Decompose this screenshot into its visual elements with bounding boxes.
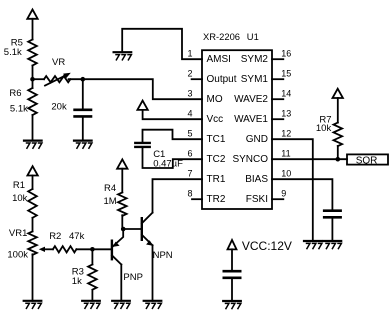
wire pin10 BIAS to cap bbox=[272, 179, 332, 209]
svg-text:SYM2: SYM2 bbox=[241, 54, 269, 65]
node E (R4/NPN base/PNP emitter) bbox=[121, 227, 126, 232]
label VR 20k bbox=[51, 57, 67, 112]
power symbol (R7 top) bbox=[333, 89, 343, 98]
pin 8 stub (TR2, n.c.) bbox=[192, 198, 202, 200]
ground (pin 1) bbox=[114, 52, 132, 60]
svg-text:5.1k: 5.1k bbox=[4, 47, 22, 58]
svg-text:3: 3 bbox=[187, 88, 192, 98]
svg-text:TC1: TC1 bbox=[207, 134, 226, 145]
capacitor (VCC bypass) bbox=[224, 271, 240, 278]
wire C1 to pin6 TC2 bbox=[143, 148, 203, 168]
wire R1 top lead bbox=[32, 176, 34, 190]
pin names right column bbox=[232, 54, 268, 205]
wire cap to ground bbox=[82, 118, 84, 141]
svg-text:XR-2206: XR-2206 bbox=[203, 31, 240, 42]
svg-text:11: 11 bbox=[281, 148, 290, 158]
svg-text:VR: VR bbox=[52, 57, 65, 68]
svg-text:47k: 47k bbox=[69, 231, 85, 242]
svg-text:MO: MO bbox=[207, 94, 223, 105]
pin 2 stub (Output, n.c.) bbox=[192, 78, 202, 80]
transistor Q2 NPN bbox=[142, 213, 153, 246]
capacitor (BIAS) bbox=[324, 211, 340, 218]
VR1 wiper arrow bbox=[39, 247, 53, 252]
svg-text:14: 14 bbox=[281, 88, 291, 98]
svg-text:16: 16 bbox=[281, 48, 291, 58]
pin 16 stub bbox=[272, 58, 283, 60]
ground (PNP collector) bbox=[112, 301, 130, 309]
wire node B to pin 3 MO bbox=[83, 79, 202, 99]
label R5 5.1k bbox=[4, 38, 23, 58]
node C (SYNCO/R7 junction) bbox=[336, 157, 341, 162]
label R4 1M bbox=[104, 183, 117, 207]
ground (R3) bbox=[82, 301, 100, 309]
svg-text:NPN: NPN bbox=[153, 250, 173, 261]
wire R6 to ground bbox=[32, 115, 34, 141]
svg-text:TC2: TC2 bbox=[207, 154, 226, 165]
ground (NPN emitter) bbox=[144, 301, 162, 309]
wire pin4 Vcc bbox=[143, 110, 202, 119]
capacitor (20k bypass) bbox=[75, 110, 91, 117]
wire BIAS cap to ground bbox=[331, 219, 333, 241]
svg-text:AMSI: AMSI bbox=[207, 54, 231, 65]
svg-text:1M: 1M bbox=[104, 196, 117, 207]
wire R4 to node E bbox=[121, 215, 123, 229]
wire node D to PNP base bbox=[92, 248, 111, 250]
svg-text:10k: 10k bbox=[316, 123, 332, 134]
power symbol (pin 4 Vcc) bbox=[137, 101, 147, 110]
svg-text:15: 15 bbox=[281, 68, 291, 78]
svg-text:R2: R2 bbox=[49, 231, 61, 242]
VR wiper arrow bbox=[45, 73, 71, 86]
resistor R6 bbox=[28, 88, 37, 115]
wire node B down to cap bbox=[82, 79, 84, 108]
svg-text:Vcc: Vcc bbox=[207, 114, 224, 125]
wire PNP collector to ground bbox=[120, 265, 122, 301]
svg-text:BIAS: BIAS bbox=[245, 174, 268, 185]
resistor R1 bbox=[28, 189, 37, 218]
wire R5 to junction bbox=[32, 66, 34, 89]
node A (R5/R6/VR junction) bbox=[30, 77, 35, 82]
ground (VR1) bbox=[24, 301, 42, 309]
ground (VCC cap) bbox=[223, 301, 241, 309]
label NPN bbox=[153, 250, 173, 261]
wire R1 to VR1 bbox=[32, 218, 34, 232]
svg-text:13: 13 bbox=[281, 108, 291, 118]
svg-text:9: 9 bbox=[281, 188, 286, 198]
svg-text:10k: 10k bbox=[12, 193, 28, 204]
pin 14 stub bbox=[272, 98, 283, 100]
wire junction to VR bbox=[33, 78, 45, 80]
svg-text:20k: 20k bbox=[51, 101, 67, 112]
wire R4 top lead bbox=[121, 169, 123, 193]
svg-text:SYNCO: SYNCO bbox=[232, 154, 268, 165]
wire R3 to ground bbox=[91, 290, 93, 301]
svg-text:1k: 1k bbox=[72, 276, 82, 287]
wire VR to junction B bbox=[69, 78, 83, 80]
wire pin11 SYNCO to SQR bbox=[272, 158, 347, 160]
potentiometer VR1 bbox=[28, 231, 37, 254]
pin 9 stub bbox=[272, 198, 283, 200]
label SQR bbox=[356, 156, 378, 167]
wire VCC to cap bbox=[231, 249, 233, 270]
label R7 10k bbox=[316, 114, 332, 134]
svg-text:R1: R1 bbox=[13, 180, 25, 191]
svg-text:5: 5 bbox=[187, 128, 192, 138]
label R6 5.1k bbox=[9, 88, 28, 115]
resistor R2 47k bbox=[53, 246, 77, 252]
svg-text:8: 8 bbox=[187, 188, 192, 198]
wire R7 top lead bbox=[337, 98, 339, 123]
label R3 1k bbox=[72, 267, 84, 287]
power symbol (R4 top) bbox=[117, 159, 127, 168]
ground (R6) bbox=[24, 141, 42, 149]
wire node E to NPN base bbox=[123, 228, 141, 230]
pin numbers right bbox=[281, 48, 291, 198]
resistor R5 bbox=[28, 40, 37, 66]
ground (pin 12) bbox=[304, 241, 322, 249]
svg-text:100k: 100k bbox=[7, 250, 28, 261]
label R1 10k bbox=[12, 180, 28, 204]
label PNP bbox=[123, 272, 143, 283]
wire pin1 AMSI to ground bbox=[122, 29, 202, 59]
label XR-2206 U1 bbox=[203, 31, 259, 42]
port SQR box bbox=[347, 154, 388, 164]
svg-text:GND: GND bbox=[246, 134, 268, 145]
wire VR1 to ground bbox=[32, 254, 34, 300]
capacitor C1 0.47uF bbox=[135, 143, 149, 147]
wire pin12 GND to ground bbox=[272, 139, 313, 241]
wire cap to ground bbox=[231, 279, 233, 301]
wire node D down to R3 bbox=[91, 249, 93, 264]
svg-text:R6: R6 bbox=[9, 88, 21, 99]
label C1 0.47uF bbox=[153, 149, 183, 170]
resistor R7 bbox=[334, 123, 343, 146]
label R2 47k bbox=[49, 231, 84, 242]
power symbol VCC (top of R5) bbox=[27, 10, 37, 19]
svg-text:12: 12 bbox=[281, 128, 291, 138]
node D (R2/R3/PNP base) bbox=[90, 247, 95, 252]
potentiometer VR 20k bbox=[44, 76, 70, 82]
resistor R3 1k bbox=[88, 265, 97, 290]
svg-text:TR1: TR1 bbox=[207, 174, 226, 185]
wire R5 top lead bbox=[32, 19, 34, 40]
wire NPN emitter to ground bbox=[152, 245, 154, 300]
svg-text:WAVE2: WAVE2 bbox=[234, 94, 268, 105]
pin names left column bbox=[207, 54, 237, 205]
ground (bypass cap) bbox=[74, 141, 92, 149]
wire pin7 TR1 to NPN collector bbox=[153, 179, 203, 212]
svg-text:PNP: PNP bbox=[123, 272, 143, 283]
power symbol (R1 top) bbox=[27, 166, 37, 175]
svg-text:TR2: TR2 bbox=[207, 194, 226, 205]
svg-text:6: 6 bbox=[187, 148, 192, 158]
pin 13 stub bbox=[272, 118, 283, 120]
IC U1 XR-2206 bbox=[202, 50, 272, 209]
svg-text:FSKI: FSKI bbox=[246, 194, 268, 205]
svg-text:R4: R4 bbox=[104, 183, 116, 194]
label VR1 100k bbox=[7, 228, 28, 261]
svg-text:7: 7 bbox=[187, 168, 192, 178]
pin 15 stub bbox=[272, 78, 283, 80]
svg-text:2: 2 bbox=[187, 68, 192, 78]
svg-text:5.1k: 5.1k bbox=[10, 104, 28, 115]
transistor Q1 PNP bbox=[112, 229, 123, 265]
svg-text:U1: U1 bbox=[247, 31, 259, 42]
svg-text:VR1: VR1 bbox=[9, 228, 27, 239]
svg-text:SQR: SQR bbox=[356, 156, 378, 167]
pin numbers left bbox=[187, 48, 192, 198]
svg-text:SYM1: SYM1 bbox=[241, 74, 269, 85]
svg-text:1: 1 bbox=[187, 48, 192, 58]
label VCC:12V bbox=[242, 239, 292, 253]
svg-text:WAVE1: WAVE1 bbox=[234, 114, 268, 125]
svg-text:4: 4 bbox=[187, 108, 192, 118]
wire R7 to node C bbox=[337, 146, 339, 159]
svg-text:Output: Output bbox=[207, 74, 237, 85]
resistor R4 1M bbox=[118, 192, 127, 215]
ground (BIAS cap) bbox=[324, 241, 342, 249]
wire pin5 TC1 to C1 bbox=[143, 130, 203, 142]
node B (VR/cap/MO junction) bbox=[81, 77, 86, 82]
power symbol VCC:12V bbox=[228, 240, 237, 249]
svg-text:VCC:12V: VCC:12V bbox=[242, 239, 292, 253]
svg-text:10: 10 bbox=[281, 168, 291, 178]
wire R2 to node D bbox=[76, 248, 92, 250]
